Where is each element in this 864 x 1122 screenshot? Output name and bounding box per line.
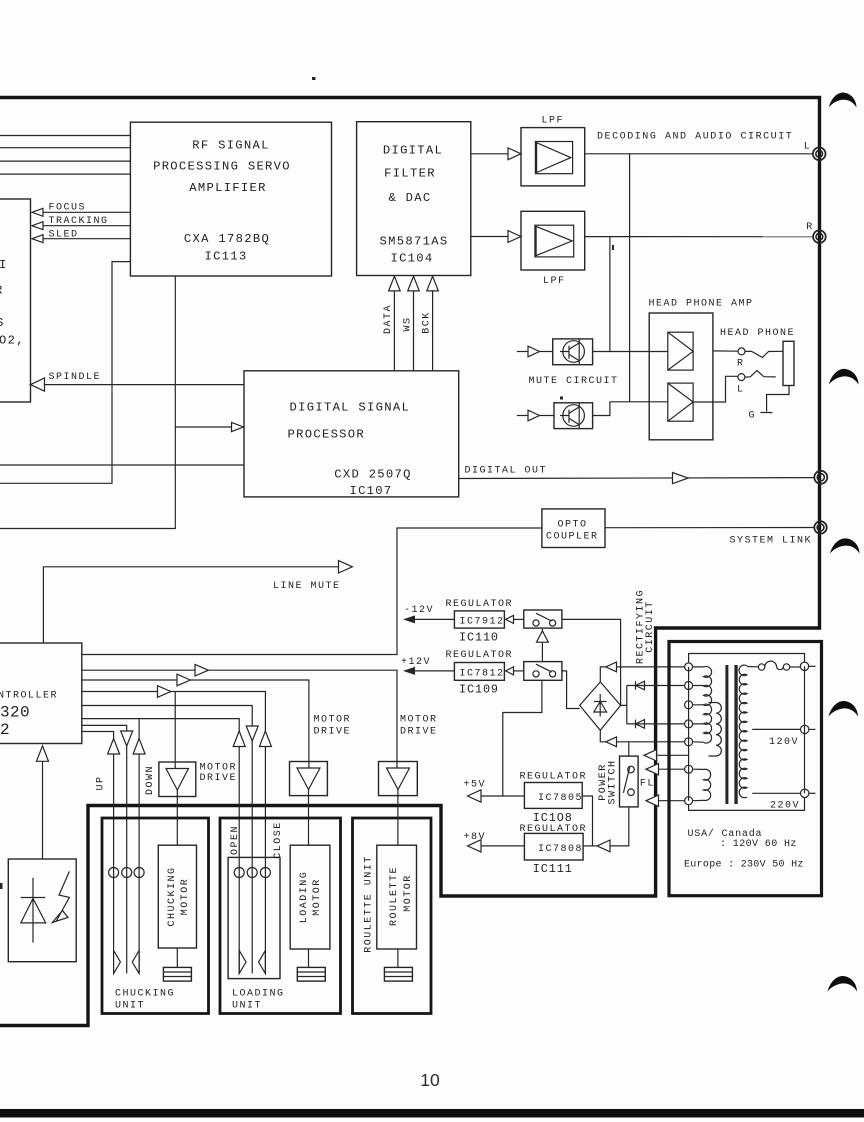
wire R channel line LPF2 to R terminal [585, 236, 814, 238]
svg-text:IC7805: IC7805 [538, 793, 583, 804]
wire switch2 bottom to +5V rail [503, 680, 542, 796]
wire L drop to lower headphone amp [629, 154, 631, 402]
wire bridge bottom to transformer tap 5 [600, 730, 684, 742]
LPF2 inner amp square [535, 225, 574, 257]
chucking contact circles [109, 868, 119, 878]
svg-text:HEAD PHONE AMP: HEAD PHONE AMP [649, 299, 754, 310]
mute transistor 2 symbol [563, 405, 585, 427]
svg-text:SPINDLE: SPINDLE [49, 372, 102, 383]
secondary terminal stubs [809, 665, 816, 667]
motor drive 2 box [290, 762, 328, 796]
remote sensor light arrow [52, 871, 69, 922]
arrow up between switches (open, up) [537, 631, 549, 642]
arrow up on CLOSE line (open, up) [259, 731, 271, 747]
motor drive 3 triangle [387, 768, 410, 790]
primary top jog wire [689, 654, 805, 663]
arrow on tap5 line (open, left) [606, 737, 617, 747]
wire FOCUS line [42, 211, 130, 213]
wire controller output L5 (loading middle line) [82, 706, 252, 974]
arrow mute2 input (open, right) [528, 410, 540, 421]
svg-text:R: R [737, 358, 745, 369]
svg-text:IC7912: IC7912 [460, 616, 505, 627]
arrow on tap1 line (open, left) [606, 662, 617, 672]
svg-text:IC7808: IC7808 [538, 844, 583, 855]
wire opto coupler left to controller (via vertical) [82, 528, 542, 655]
wire diode line to transformer tap 2 [627, 685, 684, 687]
diode symbol on tap2 line [636, 681, 645, 690]
arrow DATA (open, up) [389, 276, 401, 291]
svg-text:L: L [804, 142, 812, 153]
mute circuit transistor 1 box [553, 339, 593, 365]
diode symbol on tap4 line [636, 720, 645, 729]
wire IC7805 right to IC7808 feed [582, 796, 592, 846]
120V tap wire [752, 728, 800, 730]
svg-text:R: R [0, 284, 4, 298]
LPF2 outer box [521, 211, 585, 270]
head amp lower rect + triangle [668, 383, 693, 421]
loading contact circles [234, 868, 244, 878]
opto coupler box [542, 509, 605, 548]
jack R contact circle [738, 348, 745, 355]
roulette motor connector [384, 967, 412, 981]
optical pickup box (cut off at left edge) [0, 199, 31, 402]
svg-text:CHUCKING: CHUCKING [167, 866, 178, 926]
transformer primary terminal column [688, 667, 690, 801]
lower primary tap stubs [693, 769, 703, 801]
arrow on L3 (open, right) [177, 674, 190, 686]
transformer core bar 1 [725, 665, 728, 804]
wire switch1 right to bridge right corner [562, 619, 621, 705]
wire +5V output [480, 795, 524, 797]
wire arrow to IC7808 box [583, 845, 597, 847]
wire roulette motor to connector [397, 949, 399, 967]
arrow LINE MUTE (open, right) [339, 561, 353, 573]
wire opto coupler to system link terminal [605, 527, 814, 529]
wire remote sensor to controller [42, 761, 44, 859]
wire RF input line 2 [0, 147, 130, 149]
wire motor drive 1 to chucking motor [176, 790, 178, 846]
arrow into IC7808 right (open, left) [597, 840, 610, 852]
svg-text:REGULATOR: REGULATOR [446, 599, 514, 610]
LPF1 outer box [521, 128, 585, 186]
svg-text:CXA 1782BQ: CXA 1782BQ [184, 232, 270, 246]
LPF1 amp triangle [537, 143, 571, 173]
jack R switch lever [745, 351, 783, 357]
arrow into LPF2 (open, right) [508, 231, 521, 243]
arrow TRACKING (open, left) [32, 222, 43, 230]
svg-text:+12V: +12V [401, 657, 431, 668]
auxiliary winding coil (middle) [709, 703, 722, 757]
svg-text:BCK: BCK [422, 311, 433, 334]
R output terminal [813, 230, 826, 243]
scan binding crescent 5 [828, 976, 858, 991]
arrow -12V (solid, left) [403, 615, 415, 623]
svg-text:REGULATOR: REGULATOR [446, 650, 514, 661]
arrow BCK (open, up) [427, 276, 439, 291]
wire chucking motor to connector [176, 948, 178, 967]
svg-text:IC1O8: IC1O8 [533, 811, 573, 825]
scan binding crescent 3 [830, 538, 860, 553]
loading motor connector [297, 967, 325, 981]
arrow mute1 input (open, right) [528, 346, 540, 357]
wire SPINDLE line from DSP to pickup [44, 384, 244, 386]
svg-text:MOTOR: MOTOR [200, 763, 238, 774]
arrow tap7 (open, left) [646, 795, 659, 806]
arrow on L4 (open, right) [158, 686, 171, 698]
motor drive 1 triangle [166, 769, 189, 791]
svg-text:10: 10 [420, 1070, 440, 1090]
svg-text:IC109: IC109 [459, 683, 499, 697]
wire mute1 arrow to box [540, 351, 553, 353]
arrow +8V (open, left) [468, 840, 482, 852]
svg-text:CXD 2507Q: CXD 2507Q [334, 468, 412, 482]
head phone amp box [649, 313, 713, 440]
digital filter and DAC IC104 box [357, 122, 471, 276]
page bottom black bar [0, 1109, 864, 1118]
arrow FL top (open, left) [644, 750, 657, 761]
arrow up on DOWN line (open, up) [133, 739, 145, 755]
svg-text:ROULETTE: ROULETTE [389, 866, 400, 926]
svg-text:2320: 2320 [0, 704, 30, 722]
LPF2 amp triangle [536, 226, 572, 255]
jack ground lead [761, 386, 790, 413]
svg-text:MOTOR: MOTOR [314, 715, 352, 726]
secondary terminal circles [800, 662, 808, 670]
arrow digital out (open, right) [673, 473, 689, 484]
svg-text:UNIT: UNIT [232, 1001, 262, 1012]
wire lower amp output jog up to jack L contact [693, 376, 738, 402]
wire mute2 output jog up into lower amp [593, 402, 668, 416]
svg-text:I: I [0, 258, 8, 272]
wire link switch2 top to switch1 bottom [541, 629, 543, 662]
loading limit chevron left [259, 951, 266, 974]
wire RF input line 4 [0, 173, 130, 175]
svg-text:& DAC: & DAC [388, 191, 431, 205]
motor drive 2 triangle [297, 768, 320, 790]
transformer core bar 2 [734, 665, 737, 804]
head amp upper rect + triangle [668, 332, 693, 370]
svg-text:DRIVE: DRIVE [314, 727, 352, 738]
arrow up on OPEN line (open, up) [233, 731, 245, 747]
arrow up on UP line (open, up) [108, 739, 120, 755]
arrow tap6 (open, left) [646, 764, 659, 775]
wire controller output L3 to motor drive 2 [82, 680, 309, 768]
svg-text:DRIVE: DRIVE [400, 727, 438, 738]
svg-text:MUTE CIRCUIT: MUTE CIRCUIT [529, 376, 619, 387]
wire motor drive 2 to loading motor [308, 789, 310, 845]
svg-text:DIGITAL: DIGITAL [383, 144, 443, 158]
arrow WS (open, up) [408, 276, 420, 291]
wire bridge top to transformer tap 1 [600, 667, 684, 682]
svg-text:USA/ Canada: USA/ Canada [688, 828, 763, 840]
wire line to transformer tap 6 [658, 768, 686, 770]
svg-text:FILTER: FILTER [384, 167, 436, 181]
svg-text:HEAD PHONE: HEAD PHONE [720, 328, 795, 339]
wire mute1 input stub [517, 351, 529, 353]
arrow +12V (solid, left) [403, 667, 415, 675]
arrow up into controller bottom from remote sensor [37, 746, 49, 762]
svg-text:220V: 220V [770, 800, 800, 811]
svg-text:OPEN: OPEN [230, 825, 241, 855]
wire upper amp output to jack R contact [713, 350, 738, 352]
svg-text:NTROLLER: NTROLLER [0, 691, 58, 702]
wire mute2 arrow to box [540, 415, 555, 417]
wire LINE MUTE from controller top [43, 567, 338, 643]
svg-text:Europe : 230V 50 Hz: Europe : 230V 50 Hz [684, 860, 804, 871]
svg-text:IC110: IC110 [459, 630, 499, 644]
arrow SPINDLE (open, left, large) [31, 378, 45, 391]
digital out terminal [814, 471, 827, 484]
svg-text:SYSTEM LINK: SYSTEM LINK [730, 536, 813, 547]
arrow into IC7812 (open, left) [506, 667, 514, 675]
system link terminal [814, 521, 826, 533]
motor drive 3 box [379, 762, 418, 796]
svg-text:LPF: LPF [542, 116, 565, 127]
wire power switch bottom to IC7808 [610, 807, 629, 846]
arrow into IC7912 (open, left) [506, 615, 514, 623]
chucking limit chevron left [132, 951, 139, 974]
scan speck near R line [612, 245, 614, 250]
svg-text:MOTOR: MOTOR [312, 878, 323, 916]
wire FL line with arrow to boundary (top) [658, 754, 689, 756]
svg-text:12: 12 [0, 721, 10, 739]
svg-text:LINE MUTE: LINE MUTE [273, 581, 341, 592]
loading limit chevron right [239, 951, 246, 974]
head phone jack body [783, 341, 794, 385]
wire loading motor to connector [308, 949, 310, 967]
svg-text:PROCESSING SERVO: PROCESSING SERVO [153, 160, 291, 174]
regulator IC7812 box [454, 663, 504, 681]
wire into DSP left edge at y465 [0, 464, 244, 466]
svg-text:UNIT: UNIT [115, 1001, 145, 1012]
svg-text:DIGITAL SIGNAL: DIGITAL SIGNAL [290, 401, 411, 415]
secondary terminal column [804, 666, 806, 793]
arrow into LPF1 (open, right) [508, 148, 521, 160]
svg-text:LPF: LPF [543, 276, 566, 287]
loading motor box [290, 845, 330, 949]
primary winding coil (lower) [704, 769, 711, 800]
scan binding crescent 2 [829, 369, 859, 385]
wire SLED line [42, 238, 130, 240]
svg-text:CIRCUIT: CIRCUIT [645, 600, 656, 653]
wire +12V output [412, 670, 454, 672]
svg-text:SWITCH: SWITCH [608, 759, 619, 804]
chucking unit box (thick) [102, 818, 209, 1014]
regulator IC7912 box [454, 611, 504, 628]
svg-text:DOWN: DOWN [145, 765, 156, 795]
svg-text:RF SIGNAL: RF SIGNAL [192, 139, 270, 153]
svg-text:AMPLIFIER: AMPLIFIER [189, 181, 267, 195]
220V tap wire [752, 792, 800, 794]
jack L contact circle [738, 374, 745, 381]
svg-text:S: S [0, 316, 5, 330]
wire +8V output [480, 845, 524, 847]
wire line to transformer tap 7 [658, 800, 686, 802]
arrow on L2 (open, right) [195, 664, 208, 676]
arrow down on loading middle line (open, down) [246, 726, 258, 741]
svg-text:DECODING AND AUDIO CIRCUIT: DECODING AND AUDIO CIRCUIT [597, 132, 793, 143]
wire -12V output with solid arrow [412, 618, 454, 620]
scan binding crescent 4 [829, 701, 859, 716]
wire branch L4 down to motor drive 1 [174, 692, 176, 769]
svg-text:-12V: -12V [404, 605, 434, 616]
primary tap stubs [693, 667, 703, 742]
svg-text:L: L [737, 384, 745, 395]
svg-text:DIGITAL OUT: DIGITAL OUT [465, 466, 548, 477]
roulette unit box (thick) [353, 818, 432, 1014]
wire TRACKING line [42, 225, 130, 227]
svg-text:+5V: +5V [464, 780, 487, 791]
wire motor drive 3 to roulette motor [397, 789, 399, 845]
diode bridge diamond [580, 682, 621, 730]
wire controller output L4 (close line + motor drive 1 branch) [82, 692, 266, 974]
wire mute1 output to head phone amp [593, 351, 668, 353]
fuse line with fuse symbol [747, 666, 758, 668]
wire RF input line 3 [0, 160, 130, 162]
svg-text:PROCESSOR: PROCESSOR [288, 428, 366, 442]
svg-text:G: G [749, 411, 757, 422]
bridge diode symbol [594, 694, 607, 717]
arrow +5V (open, left) [468, 790, 482, 802]
wire switch2 to IC7812 [514, 670, 524, 672]
chucking motor connector [163, 967, 191, 981]
svg-text:MOTOR: MOTOR [180, 878, 191, 916]
wire digital out line [459, 477, 815, 480]
svg-text:: 120V 60 Hz: : 120V 60 Hz [720, 839, 797, 850]
svg-text:LOADING: LOADING [232, 989, 285, 1000]
wire switch1 to IC7912 [514, 618, 524, 620]
wire diode line to transformer tap 4 [627, 723, 684, 725]
speck above mute2 [560, 397, 563, 400]
svg-text:ROULETTE UNIT: ROULETTE UNIT [364, 855, 375, 953]
svg-text:IC104: IC104 [390, 252, 433, 266]
svg-text:IC7812: IC7812 [460, 668, 505, 679]
svg-text:MOTOR: MOTOR [400, 715, 438, 726]
jack L switch lever [745, 371, 776, 378]
svg-text:+8V: +8V [464, 832, 487, 843]
wire controller stub L7 (chucking middle) [82, 725, 127, 973]
mute circuit transistor 2 box [554, 403, 593, 429]
primary winding coil (upper) [704, 666, 712, 743]
motor drive 1 box [159, 762, 196, 797]
LPF1 inner amp square [535, 142, 572, 174]
svg-text:WS: WS [402, 316, 413, 331]
wire power switch top to tap5 line [628, 742, 630, 756]
wire WS line DSP to DAC [413, 291, 415, 371]
wire bridge right to half-wave diodes vertical [621, 686, 627, 724]
arrow SLED (open, left) [32, 235, 43, 243]
svg-text:IC111: IC111 [533, 862, 573, 876]
bottom jog wire [689, 798, 805, 811]
RF signal processing servo amplifier U-IC113 box [130, 122, 331, 276]
arrow down on chucking middle line (open, down) [121, 731, 133, 746]
svg-text:COUPLER: COUPLER [546, 532, 599, 543]
svg-text:SM5871AS: SM5871AS [380, 235, 449, 249]
wire DATA line DSP to DAC [393, 291, 395, 371]
svg-text:DRIVE: DRIVE [200, 773, 238, 784]
wire R drop to upper headphone amp [609, 237, 611, 352]
chucking limit chevron right [114, 951, 121, 974]
wire from RF box bottom down then left, with branch to DSP [0, 276, 175, 529]
svg-text:CLOSE: CLOSE [273, 821, 284, 859]
main board boundary (thick outline) [0, 98, 820, 1026]
wire controller stub L8 (chucking UP line) [82, 732, 114, 951]
wire branch chucking DOWN line [138, 719, 140, 974]
scan speck above border [312, 77, 316, 80]
svg-text:R: R [806, 222, 814, 233]
svg-text:LOADING: LOADING [299, 871, 310, 924]
wire branch RF-to-DSP with arrow [175, 426, 232, 428]
wire mute2 input stub [517, 415, 529, 417]
secondary winding coil [739, 665, 747, 798]
regulator switch 1 box [524, 610, 562, 628]
svg-text:UP: UP [96, 775, 107, 790]
chucking motor box [158, 845, 196, 948]
arrow FOCUS (open, left) [32, 208, 43, 216]
digital signal processor IC107 box [244, 371, 459, 497]
regulator switch 2 box [524, 662, 562, 681]
power switch box [620, 756, 639, 807]
svg-text:IC107: IC107 [349, 484, 392, 498]
power transformer box (thick) [669, 642, 822, 896]
L output terminal [813, 148, 826, 161]
svg-text:OPTO: OPTO [557, 519, 587, 530]
svg-text:120V: 120V [769, 737, 799, 748]
wire controller output L2 to motor drive 3 [82, 670, 397, 768]
wire DAC to LPF2 [471, 236, 509, 238]
svg-text:DATA: DATA [383, 304, 394, 334]
system controller box (cut off at left edge) [0, 643, 82, 744]
loading inner thin box [228, 857, 280, 978]
svg-text:MOTOR: MOTOR [403, 874, 414, 912]
left edge speck [0, 883, 3, 889]
arrow into DSP left (open, right) [232, 422, 244, 431]
remote sensor box [8, 859, 76, 962]
svg-text:REGULATOR: REGULATOR [520, 772, 588, 783]
svg-text:IC113: IC113 [204, 250, 247, 264]
regulator IC7808 box [524, 833, 583, 860]
svg-text:CHUCKING: CHUCKING [115, 989, 175, 1000]
scan binding crescent 1 [829, 93, 857, 108]
loading unit box (thick) [220, 818, 341, 1014]
wire controller output L6 (open line + chucking down branch) [82, 719, 239, 974]
remote sensor photodiode symbol [21, 878, 46, 943]
svg-text:O2,: O2, [0, 334, 25, 348]
wire RF input line 1 [0, 135, 130, 137]
roulette motor box [377, 845, 417, 949]
wire from RF box left edge down to left (servo feedback) [0, 262, 130, 484]
primary terminal circles [685, 663, 693, 671]
svg-text:FL: FL [640, 779, 655, 790]
mute transistor 1 symbol [563, 341, 585, 363]
wire L channel line LPF1 to L terminal [585, 153, 813, 155]
wire switch2 right to bridge left corner [562, 671, 580, 709]
wire BCK line DSP to DAC [432, 291, 434, 371]
regulator IC7805 box [524, 783, 582, 809]
wire DAC to LPF1 [471, 153, 509, 155]
